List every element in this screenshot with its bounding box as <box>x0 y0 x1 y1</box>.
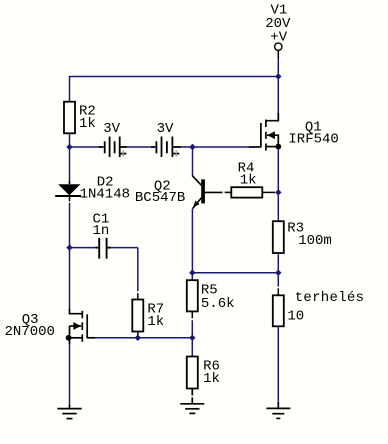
svg-text:3V: 3V <box>157 121 174 137</box>
svg-text:3V: 3V <box>103 121 120 137</box>
svg-text:1k: 1k <box>203 371 220 387</box>
svg-text:1k: 1k <box>147 314 164 330</box>
svg-text:1n: 1n <box>93 223 110 239</box>
svg-text:2N7000: 2N7000 <box>5 324 55 340</box>
svg-text:terhelés: terhelés <box>295 290 365 306</box>
svg-text:10: 10 <box>287 309 304 325</box>
svg-text:BC547B: BC547B <box>135 190 185 206</box>
svg-text:IRF540: IRF540 <box>288 132 338 148</box>
svg-text:100m: 100m <box>298 233 332 249</box>
svg-text:1N4148: 1N4148 <box>80 187 130 203</box>
svg-text:1k: 1k <box>240 173 257 189</box>
svg-text:1k: 1k <box>79 116 96 132</box>
svg-text:+V: +V <box>270 29 287 45</box>
svg-text:5.6k: 5.6k <box>201 296 235 312</box>
